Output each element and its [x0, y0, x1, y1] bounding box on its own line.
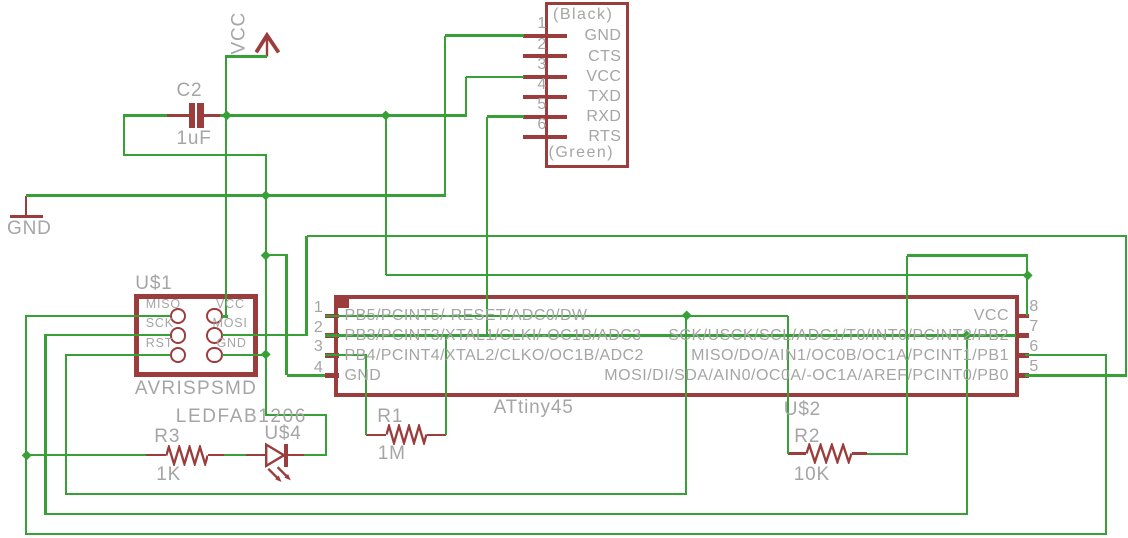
connector pin name RTS: [588, 129, 621, 145]
LED U$4 cathode bar: [284, 444, 288, 467]
IC U$2 pin-1 corner marker: [334, 295, 349, 308]
wire SCK right riser: [966, 336, 968, 515]
wire RST bottom bus: [65, 493, 688, 495]
label U$1: [135, 274, 172, 293]
value 10K: [794, 465, 830, 484]
junction VCC at C2: [221, 110, 231, 120]
capacitor C2 left lead: [166, 114, 189, 117]
wire SCK bottom bus: [44, 513, 968, 515]
wire GND column: [265, 154, 267, 415]
LED U$4 triangle anode: [264, 442, 291, 469]
connector pin 5 lead: [523, 115, 567, 119]
connector U$1 AVRISPSMD box: [134, 294, 258, 376]
wire R2 right to riser: [867, 453, 908, 455]
ATtiny45 pin number 6: [1029, 339, 1038, 355]
junction GND at AVRISP pad: [260, 350, 270, 360]
wire GND branch to ATtiny: [266, 254, 288, 256]
wire ATtiny pin4 GND: [287, 374, 326, 376]
ATtiny45 pin name PB3: [345, 328, 642, 344]
ATtiny45 pin name VCC: [974, 308, 1009, 324]
LED U$4 right lead: [288, 454, 305, 457]
AVRISP pad label MOSI: [213, 317, 248, 330]
wire connector pin3 VCC: [466, 76, 524, 78]
junction GND branch: [260, 250, 270, 260]
wire VCC symbol to AVRISP VCC pad: [225, 57, 227, 317]
LED U$4 emission arrows: [265, 466, 295, 486]
wire VCC bus to pin8 junction: [386, 274, 1027, 276]
wire MISO bottom bus: [25, 533, 1107, 535]
wire AVRISP RST pad: [66, 354, 170, 356]
wire LED cathode to riser: [304, 454, 327, 456]
wire R2 left riser: [787, 316, 789, 454]
wire RXD drop: [486, 117, 488, 336]
wire PB2 row across IC: [325, 334, 1017, 336]
resistor R3 zigzag: [166, 445, 208, 466]
connector label (Green): [549, 145, 615, 161]
wire RST right riser: [685, 316, 687, 494]
AVRISP pad VCC: [206, 308, 223, 325]
resistor R1 right lead: [427, 434, 446, 437]
ATtiny45 pin number 8: [1029, 299, 1038, 315]
ATtiny45 pin name GND: [345, 368, 382, 384]
wire connector GND drop: [444, 36, 446, 197]
wire connector VCC down: [465, 77, 467, 117]
wire MISO right riser: [1105, 355, 1107, 535]
AVRISP pad GND: [206, 347, 223, 364]
junction VCC bus: [381, 110, 391, 120]
wire MOSI right drop: [1125, 236, 1127, 376]
wire AVRISP MISO pad: [26, 315, 170, 317]
ATtiny45 pin name PB2: [668, 328, 1009, 344]
resistor R1 zigzag: [386, 424, 427, 445]
wire MOSI left riser: [305, 236, 307, 335]
wire MISO left column: [25, 315, 27, 534]
ATtiny45 pin 6 lead: [1015, 353, 1029, 357]
connector pin number 4: [537, 77, 546, 93]
connector pin name CTS: [588, 49, 621, 65]
wire AVRISP MOSI pad to riser: [222, 334, 308, 336]
AVRISP pad label SCK: [146, 317, 174, 330]
wire R3 to LED: [224, 454, 246, 456]
junction SCK row: [962, 330, 972, 340]
connector pin number 2: [537, 37, 546, 53]
junction GND column at GND wire: [260, 190, 270, 200]
connector pin 1 lead: [523, 34, 567, 38]
label R1: [377, 407, 403, 426]
junction MISO at R3: [21, 450, 31, 460]
ATtiny45 pin 8 lead: [1015, 314, 1029, 318]
AVRISP pad RST: [170, 347, 187, 364]
value AVRISPSMD: [135, 379, 257, 398]
AVRISP VCC pad stub: [222, 315, 228, 318]
label R3: [154, 427, 180, 446]
ATtiny45 pin name PB0: [604, 368, 1009, 384]
wire C2 left to corner: [125, 114, 167, 116]
ground symbol stem: [25, 196, 28, 215]
VCC supply symbol arrow: [250, 28, 284, 60]
ATtiny45 pin name PB4: [345, 348, 644, 364]
wire LED return riser: [325, 415, 327, 456]
wire LED return horizontal: [265, 414, 327, 416]
label U$4: [264, 424, 301, 443]
connector pin number 6: [537, 117, 546, 133]
value 1M: [378, 444, 406, 463]
wire connector pin5 RXD: [487, 115, 524, 117]
ground symbol bar: [10, 215, 43, 219]
AVRISP pad label GND: [217, 337, 247, 350]
AVRISP pad MISO: [170, 308, 187, 325]
LED U$4 left lead: [246, 454, 266, 457]
value ATtiny45: [494, 398, 574, 417]
connector pin number 3: [537, 57, 546, 73]
wire VCC symbol horizontal: [225, 55, 267, 57]
capacitor C2 left plate: [189, 103, 195, 128]
connector pin number 1: [537, 16, 546, 32]
ATtiny45 pin 2 lead: [325, 333, 339, 337]
AVRISP pad SCK: [170, 327, 187, 344]
connector pin number 5: [537, 97, 546, 113]
ATtiny45 pin number 2: [314, 320, 323, 336]
wire connector pin1 GND: [445, 34, 524, 36]
ATtiny45 pin 7 lead: [1015, 333, 1029, 337]
connector pin name TXD: [588, 89, 621, 105]
junction RESET row: [681, 310, 691, 320]
wire ATtiny pin5 to drop: [1025, 374, 1127, 376]
resistor R2 right lead: [852, 452, 867, 455]
capacitor C2 right lead: [204, 114, 221, 117]
wire y155 to GND column: [124, 154, 267, 156]
wire RESET row across IC: [325, 315, 789, 317]
label R2: [794, 427, 820, 446]
ATtiny45 pin name PB1: [691, 348, 1009, 364]
resistor R3 right lead: [208, 454, 224, 457]
connector pin name RXD: [586, 109, 621, 125]
ATtiny45 pin 3 lead: [325, 353, 339, 357]
label GND (ground): [7, 219, 52, 238]
AVRISP pad label RST: [146, 337, 173, 350]
wire R2 top horizontal: [907, 254, 1028, 256]
connector pin name GND: [585, 28, 622, 44]
junction VCC at pin8 drop: [1022, 270, 1032, 280]
value 1uF: [177, 129, 212, 148]
AVRISP pad label MISO: [146, 298, 181, 311]
ATtiny45 pin name PB5: [345, 308, 588, 324]
resistor R3 left lead: [146, 454, 167, 457]
ATtiny45 pin number 1: [314, 300, 323, 316]
connector pin name VCC: [586, 69, 621, 85]
wire pin8 VCC drop: [1026, 256, 1028, 316]
wire VCC C2 to connector column: [220, 114, 467, 116]
wire MISO to R3: [26, 454, 146, 456]
AVRISP pad label VCC: [216, 298, 245, 311]
wire RST left column: [65, 354, 67, 495]
IC U$2 ATtiny45 box: [334, 295, 1019, 397]
ATtiny45 pin number 7: [1029, 319, 1038, 335]
wire GND horizontal: [26, 194, 446, 196]
wire AVRISP GND pad to column: [222, 354, 267, 356]
ATtiny45 pin 4 lead: [325, 373, 339, 377]
wire ATtiny GND riser: [285, 255, 287, 375]
wire ATtiny pin3 to R1: [325, 354, 368, 356]
value 1K: [156, 465, 181, 484]
ATtiny45 pin 1 lead: [325, 314, 339, 318]
connector pin 3 lead: [523, 75, 567, 79]
connector pin 2 lead: [523, 54, 567, 58]
wire MOSI top bus: [307, 235, 1128, 237]
connector pin 4 lead: [523, 95, 567, 99]
wire corner down C2-left: [123, 114, 125, 156]
wire R1 right riser: [445, 336, 447, 436]
label VCC (supply): [230, 13, 249, 55]
connector label (Black): [553, 7, 613, 23]
resistor R2 zigzag: [806, 443, 852, 464]
wire VCC junction down: [385, 116, 387, 276]
ATtiny45 pin 5 lead: [1015, 373, 1029, 377]
ATtiny45 pin number 3: [314, 339, 323, 355]
value LEDFAB1206: [176, 407, 307, 426]
wire R1 left riser: [365, 355, 367, 435]
ATtiny45 pin number 4: [314, 360, 323, 376]
wire ATtiny pin6 to riser: [1025, 354, 1107, 356]
resistor R2 left lead: [788, 452, 806, 455]
wire AVRISP SCK pad: [46, 334, 171, 336]
wire SCK left column: [44, 334, 46, 515]
label C2: [177, 81, 203, 100]
label U$2: [784, 400, 821, 419]
wire R2 right riser: [906, 256, 908, 454]
ATtiny45 pin number 5: [1029, 359, 1038, 375]
connector pin 6 lead: [523, 135, 567, 139]
resistor R1 left lead: [366, 434, 386, 437]
capacitor C2 right plate: [197, 103, 203, 128]
connector J1 box (FTDI header): [545, 2, 629, 168]
AVRISP pad MOSI: [206, 327, 223, 344]
